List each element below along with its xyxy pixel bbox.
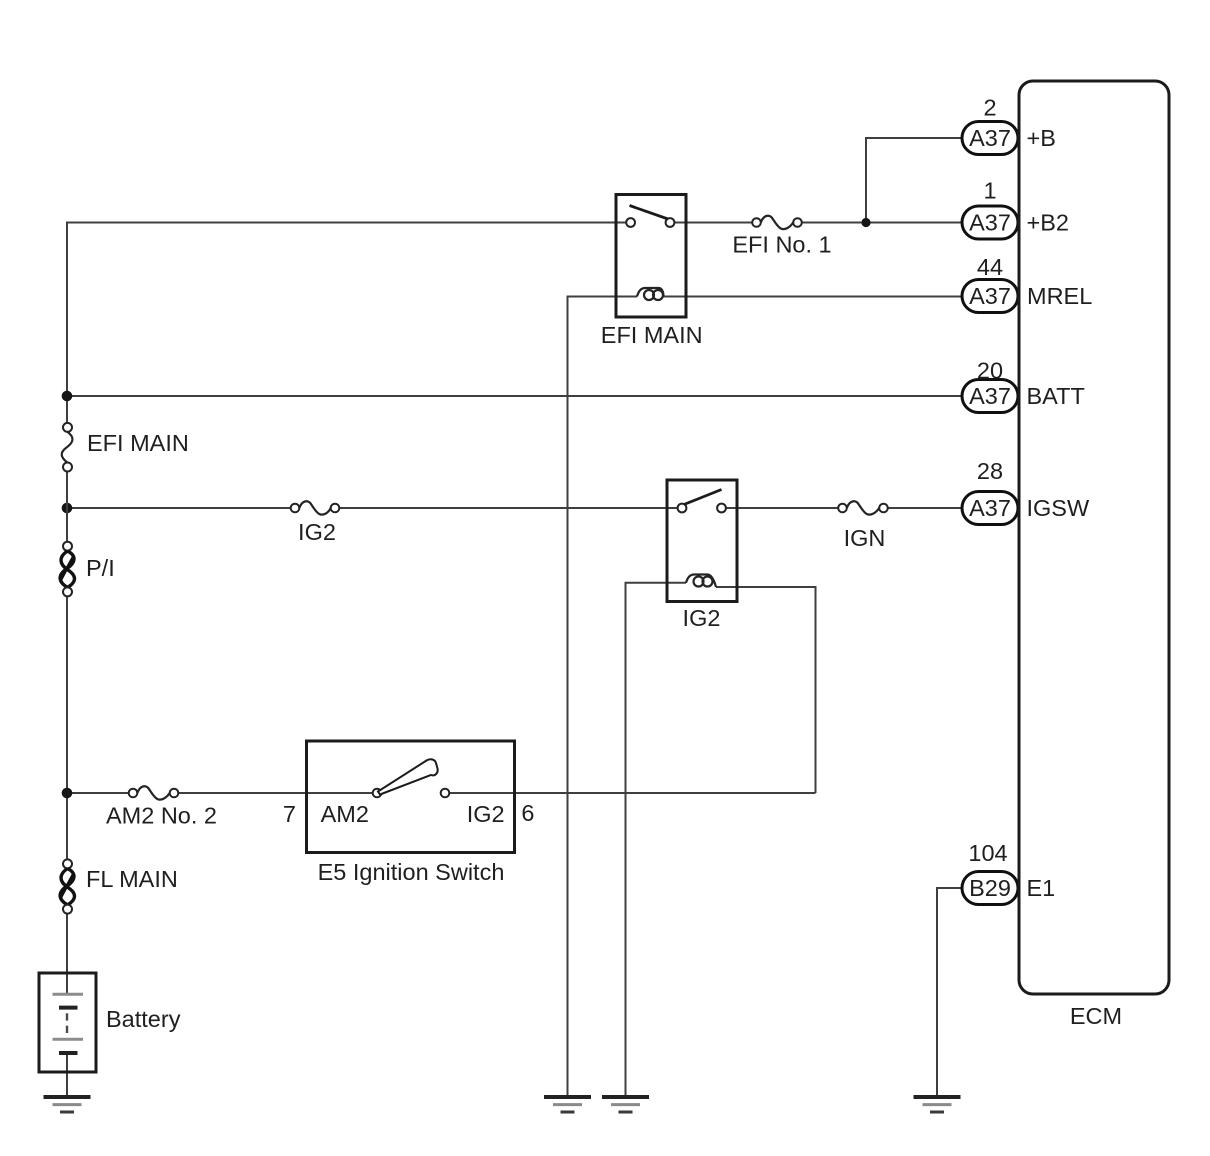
node junction BATT tap — [62, 391, 73, 402]
wire fuse AM2 No. 2 to ignition switch AM2 contact — [178, 792, 372, 794]
svg-text:EFI MAIN: EFI MAIN — [87, 430, 189, 456]
wire BATT: battery rail to A37 pin 20 — [67, 395, 962, 397]
ignition switch contact IG2 — [441, 789, 450, 798]
wire battery internal top lead — [66, 973, 68, 993]
connector A37 pin 1 (+B2) — [962, 206, 1018, 239]
wire fuse IG2 to IG2 relay switch — [339, 507, 677, 509]
battery plate short 2 — [59, 1051, 78, 1055]
fusible link EFI MAIN — [62, 423, 73, 472]
wire fuse IGN to connector A37 pin 28 — [888, 507, 962, 509]
wire battery negative lead to ground — [66, 1053, 68, 1095]
connector A37 pin 28 (IGSW) — [962, 492, 1018, 525]
wire E1: connector B29 pin 104 to ground — [937, 888, 962, 1095]
wire MREL: EFI MAIN relay coil to A37 pin 44 — [663, 296, 962, 298]
svg-text:20: 20 — [977, 358, 1003, 384]
relay IG2 switch lever — [684, 490, 722, 505]
svg-text:MREL: MREL — [1027, 283, 1092, 309]
svg-text:AM2 No. 2: AM2 No. 2 — [106, 803, 217, 829]
svg-text:A37: A37 — [969, 125, 1011, 151]
connector A37 pin 20 (BATT) — [962, 380, 1018, 413]
connector A37 pin 44 (MREL) — [962, 280, 1018, 313]
battery plate long 1 — [53, 993, 84, 996]
ignition switch lever — [378, 759, 438, 794]
svg-text:28: 28 — [977, 458, 1003, 484]
svg-text:IGSW: IGSW — [1027, 495, 1090, 521]
svg-text:44: 44 — [977, 254, 1003, 280]
battery box — [39, 973, 96, 1072]
wire ignition switch IG2 contact to riser — [449, 792, 815, 794]
relay EFI MAIN switch contact left — [626, 218, 635, 227]
svg-text:B29: B29 — [969, 875, 1011, 901]
svg-text:+B: +B — [1027, 125, 1056, 151]
battery plate short 1 — [59, 1006, 78, 1010]
relay EFI MAIN box — [616, 195, 686, 318]
relay EFI MAIN coil — [637, 288, 664, 300]
fusible link P/I — [60, 542, 74, 597]
svg-text:E5 Ignition Switch: E5 Ignition Switch — [318, 859, 505, 885]
ground for EFI MAIN relay coil — [544, 1097, 591, 1112]
svg-text:IG2: IG2 — [467, 801, 505, 827]
wire battery rail segment 2 — [66, 471, 68, 541]
relay IG2 switch contact right — [717, 504, 726, 513]
wire EFI MAIN relay coil left to ground rail — [568, 297, 638, 1096]
svg-text:IGN: IGN — [844, 525, 886, 551]
relay IG2 box — [667, 480, 737, 602]
svg-text:Battery: Battery — [106, 1006, 181, 1032]
ignition switch contact AM2 — [373, 789, 382, 798]
svg-text:A37: A37 — [969, 383, 1011, 409]
node junction +B2 branch — [861, 218, 870, 227]
relay EFI MAIN switch contact right — [666, 218, 675, 227]
fuse AM2 No. 2 — [129, 786, 179, 799]
wire IG2 relay switch to fuse IGN — [726, 507, 838, 509]
svg-text:2: 2 — [983, 95, 996, 121]
relay IG2 coil — [686, 575, 716, 588]
svg-text:IG2: IG2 — [298, 519, 336, 545]
svg-text:EFI MAIN: EFI MAIN — [601, 322, 703, 348]
wire battery rail segment 3 — [66, 596, 68, 859]
fusible link FL MAIN — [60, 859, 74, 913]
svg-text:AM2: AM2 — [321, 801, 369, 827]
ground for IG2 relay coil — [602, 1097, 649, 1112]
battery dashed cell divider — [66, 1013, 68, 1033]
wire top +B2 feed from battery rail to EFI MAIN relay switch — [67, 223, 626, 423]
relay EFI MAIN switch lever — [630, 206, 669, 220]
fuse IG2 — [291, 501, 340, 514]
svg-text:E1: E1 — [1027, 875, 1056, 901]
svg-text:7: 7 — [283, 801, 296, 827]
battery plate long 2 — [53, 1038, 84, 1041]
svg-text:104: 104 — [968, 840, 1007, 866]
connector B29 pin 104 (E1) — [962, 872, 1018, 905]
svg-text:ECM: ECM — [1070, 1003, 1122, 1029]
svg-text:IG2: IG2 — [683, 605, 721, 631]
svg-text:A37: A37 — [969, 283, 1011, 309]
node junction AM2 tap — [62, 788, 73, 799]
fuse IGN — [838, 501, 888, 514]
wire EFI MAIN relay switch to fuse EFI No. 1 — [674, 222, 752, 224]
ECM box — [1019, 81, 1169, 994]
relay IG2 switch contact left — [678, 504, 687, 513]
ground for ECM E1 — [914, 1097, 961, 1112]
svg-text:6: 6 — [521, 800, 534, 826]
svg-text:1: 1 — [983, 178, 996, 204]
svg-text:A37: A37 — [969, 495, 1011, 521]
svg-text:A37: A37 — [969, 210, 1011, 236]
svg-text:+B2: +B2 — [1027, 210, 1069, 236]
svg-text:FL MAIN: FL MAIN — [86, 866, 178, 892]
svg-text:BATT: BATT — [1027, 383, 1085, 409]
node junction IGSW tap — [62, 503, 73, 514]
svg-text:P/I: P/I — [86, 555, 115, 581]
wire battery rail segment 4 — [66, 914, 68, 973]
wire IGSW: rail to fuse IG2 — [67, 507, 291, 509]
wire fuse EFI No. 1 to connector A37 pin 1 — [802, 222, 962, 224]
wire IG2 relay coil left to ground — [626, 583, 687, 1095]
ignition switch E5 box — [307, 741, 515, 853]
connector A37 pin 2 (+B) — [962, 122, 1018, 155]
ground below battery — [44, 1097, 91, 1112]
fuse EFI No. 1 — [752, 216, 802, 229]
wire IG2 relay coil right down to ignition switch IG2 terminal — [716, 587, 816, 793]
wire branch up to connector A37 pin 2 (+B) — [866, 138, 962, 223]
svg-text:EFI No. 1: EFI No. 1 — [732, 232, 831, 258]
wire AM2: rail to fuse AM2 No. 2 — [67, 792, 129, 794]
